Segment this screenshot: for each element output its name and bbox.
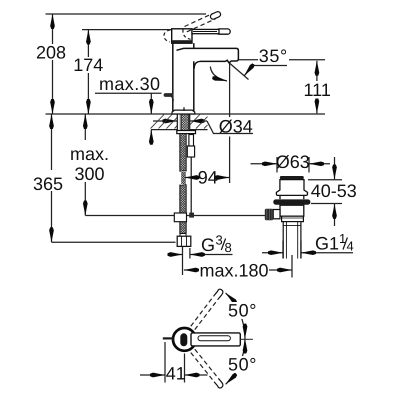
svg-text:max.: max. [70,144,109,164]
35 degree label background [258,46,289,66]
svg-text:50°: 50° [228,355,257,375]
svg-text:Ø34: Ø34 [219,116,253,136]
50 degree arc upper [226,293,245,339]
base flange [172,110,195,114]
extension line from spout outlet [229,63,231,184]
lever swung -50 (dashed band lower) [191,349,223,388]
centerline right of lever [240,338,253,340]
svg-text:4: 4 [347,239,354,254]
spout [177,48,239,68]
top-view rear nub [163,337,174,339]
svg-text:Ø63: Ø63 [276,152,310,172]
svg-text:41: 41 [166,364,186,384]
svg-text:35°: 35° [259,46,288,66]
svg-text:111: 111 [304,80,331,100]
counter/deck top line [46,113,326,115]
dimension 208 [36,14,66,114]
dimension 41 [140,342,208,384]
deck hatching [151,115,208,129]
dimension 111 [304,61,331,114]
reference line top of lever/body [82,29,172,31]
dimension 40-53 [308,157,357,226]
svg-text:3: 3 [216,233,223,248]
dimension max.300 [70,114,109,216]
pop-up knob on column (rear) [164,93,174,102]
lever (horizontal) [192,29,230,34]
water stream arrow [210,67,227,82]
pop-up rod vertical thin [190,157,192,213]
hose break strip [181,172,186,184]
top reference line (tip of raised lever) [46,13,207,15]
svg-text:40-53: 40-53 [311,181,357,201]
drain: pull-rod knob (knurled) [265,209,280,220]
drain: tailpipe [283,222,301,259]
dimension max.180 [183,247,293,281]
svg-text:174: 174 [73,55,103,75]
dimension 94 [185,167,230,187]
cartridge block [172,29,192,43]
top-view faucet body circle [173,328,196,351]
mounting washer below deck [177,131,196,134]
dimension 174 [73,30,103,114]
drain: upper cup with flange [276,180,307,196]
svg-text:94: 94 [198,167,218,187]
flexible supply hose lower part [180,184,186,233]
svg-text:208: 208 [36,42,66,62]
dimension max.30 (deck thickness) [95,74,162,144]
drain: rubber seal ring [273,199,310,204]
svg-text:max.180: max.180 [199,261,268,281]
svg-text:G1: G1 [315,234,339,254]
raised lever (dashed) [185,11,222,32]
dashed arc inside block [183,29,191,39]
dimension Ø63 [251,152,331,173]
svg-text:300: 300 [74,164,104,184]
G3/8 connector nut [177,236,191,246]
dimension G1 1/4 [262,231,354,259]
top-view lever slot pill [180,333,187,346]
svg-text:max.30: max.30 [99,74,160,94]
svg-text:8: 8 [225,240,232,255]
lever swung +50 (dashed band upper) [191,289,223,329]
drain: plug cap band [280,176,304,179]
faucet body column [173,42,194,111]
dimension Ø34 [153,116,253,136]
pop-up rod adjuster block [187,146,194,157]
centerline tick above flange [183,107,185,111]
svg-text:G: G [201,235,215,255]
35 degree angle indicator [229,63,287,80]
dimension 365 [33,114,176,242]
drain: neck between flange and seal [280,195,304,199]
top-view lever [191,333,240,346]
rod guide fitting [174,213,186,222]
svg-text:365: 365 [33,174,63,194]
threaded shank through deck [177,114,189,131]
G3/8 connector collar [180,234,186,238]
svg-text:50°: 50° [228,301,257,321]
dimension G 3/8 [168,233,233,259]
pop-up rod vertical upper [189,135,194,147]
drain: body [280,205,304,216]
dashed arc left of block (raised lever rear) [164,30,171,42]
drain: union nut [282,216,304,221]
rod clevis [189,213,194,218]
50 degree labels [227,301,258,321]
flexible supply hose (braided) upper part [180,134,186,172]
50 degree arc lower [226,339,245,385]
spout-bottom reference line for 35/111 [237,59,325,61]
pop-up rod horizontal line [85,215,265,217]
deck bottom lines [151,129,208,131]
